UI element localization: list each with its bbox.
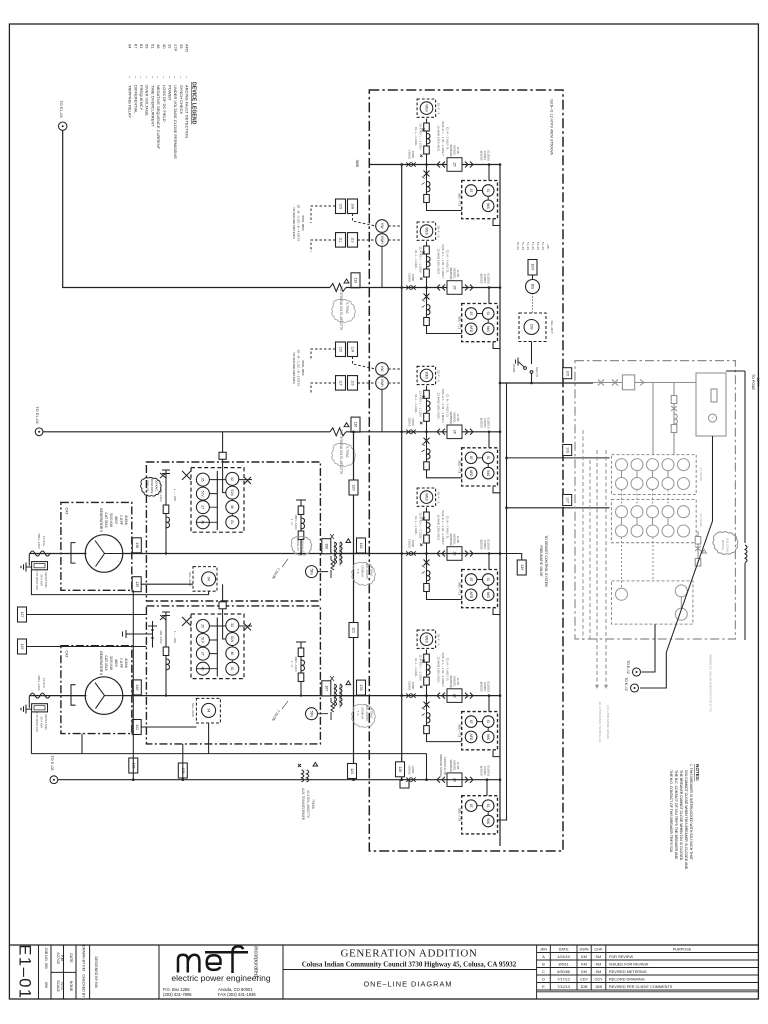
- sync relay 25: [447, 281, 462, 295]
- relay 81: [226, 662, 239, 675]
- generator G5 enclosure: [61, 502, 132, 590]
- fused chain to mobile sub: [695, 531, 706, 566]
- GSU transformer T-5: [321, 534, 369, 566]
- existing main bus: [593, 382, 696, 384]
- svg-text:12.47KV–480/277V: 12.47KV–480/277V: [306, 790, 310, 819]
- future feeder leads: [597, 450, 606, 685]
- breaker 52-G6 head: [417, 630, 440, 696]
- svg-text:121: 121: [352, 627, 356, 633]
- logo box: [158, 945, 160, 999]
- svg-text:MOBILE: MOBILE: [721, 540, 725, 551]
- CT chain G6: [422, 696, 462, 742]
- switchgear boundary box: [369, 90, 563, 851]
- breaker box 128b: [396, 762, 405, 777]
- relay panel 1: [191, 468, 244, 533]
- junction dots bay 2: [165, 694, 167, 696]
- svg-text:1→P: 1→P: [290, 661, 294, 668]
- existing switchgear boundary: [575, 361, 735, 639]
- node TO E1-03: [59, 100, 67, 130]
- sync relay 25: [447, 547, 462, 561]
- svg-text:51–2S: 51–2S: [526, 242, 530, 250]
- relay panel grid A: [612, 455, 704, 495]
- breaker box 127: [18, 607, 27, 622]
- svg-text:SCALE: SCALE: [56, 980, 60, 992]
- svg-text:electric power engineering: electric power engineering: [171, 973, 270, 983]
- relay panel 2: [191, 614, 244, 679]
- neutral coil G5: [30, 551, 50, 556]
- svg-text:4160A: 4160A: [124, 515, 128, 526]
- CT tap meters module 2: [376, 220, 389, 233]
- svg-text:DWN: DWN: [579, 948, 588, 952]
- svg-text:1. THIS BREAKER IS INTERLOCKE: 1. THIS BREAKER IS INTERLOCKED WITH 52U …: [689, 764, 693, 861]
- breaker box 128: [18, 639, 27, 654]
- svg-text:15 KVA: 15 KVA: [42, 678, 46, 688]
- title block columns: [50, 945, 52, 999]
- CT chain G5: [422, 554, 462, 600]
- svg-text:MALTO: MALTO: [535, 367, 539, 377]
- svg-text:AUX TRANSFORMER: AUX TRANSFORMER: [301, 788, 305, 821]
- svg-text:51–2S: 51–2S: [521, 242, 525, 250]
- svg-text:128: 128: [398, 766, 402, 772]
- interlock riser to E-02: [640, 436, 713, 688]
- station power PT chain 1: [159, 470, 177, 554]
- relay 51V: [196, 634, 209, 647]
- svg-text:CDY: CDY: [580, 978, 588, 982]
- swg label cloud: [141, 477, 162, 496]
- svg-text:TO SECURE METER’G: TO SECURE METER’G: [292, 352, 296, 384]
- svg-text:116: 116: [351, 380, 355, 386]
- svg-text:105: 105: [565, 370, 569, 376]
- relay 40: [196, 516, 209, 529]
- svg-text:NOTES:: NOTES:: [695, 764, 700, 782]
- svg-text:KM: KM: [581, 963, 587, 967]
- svg-text:S2000A E=05: S2000A E=05: [443, 757, 447, 776]
- svg-text:DRAWN BY KM: DRAWN BY KM: [82, 945, 86, 971]
- wire E1-03 riser: [63, 130, 330, 287]
- relay group U2: [458, 304, 498, 342]
- svg-text:A: A: [710, 417, 714, 419]
- relay 51V: [196, 487, 209, 500]
- svg-text:116: 116: [354, 422, 358, 428]
- svg-text:CDY: CDY: [594, 978, 602, 982]
- meter breaker box 114: [348, 342, 358, 357]
- breaker 52-G5 head: [417, 488, 440, 554]
- svg-text:RESISTOR: RESISTOR: [44, 714, 48, 730]
- svg-text:5.75%Z: 5.75%Z: [370, 708, 374, 718]
- svg-text:THE BREAKER CANNOT CLOSE WHEN: THE BREAKER CANNOT CLOSE WHEN 52U IS CLO…: [679, 770, 683, 861]
- aux power tap breaker 119: [500, 554, 522, 562]
- svg-text:5.75%Z: 5.75%Z: [345, 447, 349, 458]
- breaker box 141: [132, 720, 141, 735]
- svg-text:108: 108: [351, 203, 355, 209]
- svg-text:SUB CONN: SUB CONN: [726, 538, 730, 553]
- svg-text:THE N.O. CONTACT OF THIS BREAK: THE N.O. CONTACT OF THIS BREAKER TRIPS 5…: [669, 770, 673, 853]
- svg-text:25: 25: [201, 478, 205, 482]
- svg-text:DIS: DIS: [529, 324, 533, 330]
- svg-text:480V–120V: 480V–120V: [37, 533, 41, 549]
- relay group U3: [458, 448, 498, 486]
- wire relay to trunk: [493, 220, 500, 226]
- neutral relay 59N: [306, 566, 318, 578]
- svg-text:(303) 431-7895: (303) 431-7895: [163, 992, 192, 997]
- svg-text:132: 132: [359, 543, 363, 549]
- breaker box 124: [348, 764, 357, 779]
- wire relay drop: [488, 696, 490, 712]
- svg-text:46: 46: [230, 652, 234, 656]
- svg-text:Colusa Indian Community Counci: Colusa Indian Community Council 3730 Hig…: [302, 961, 517, 969]
- svg-text:59N: 59N: [309, 711, 313, 718]
- collector bus vertical: [499, 165, 501, 847]
- svg-text:JDB: JDB: [580, 985, 588, 989]
- svg-text:75KVA: 75KVA: [311, 799, 315, 810]
- fused PT chain: [671, 383, 677, 455]
- breaker box 166: [322, 539, 331, 554]
- svg-text:94: 94: [206, 709, 210, 713]
- wire bus 2: [369, 287, 500, 289]
- wire feeder G5: [29, 553, 500, 555]
- device list text: [516, 242, 550, 250]
- svg-text:(2) 4–500 KCMIL SPARE: (2) 4–500 KCMIL SPARE: [606, 705, 610, 739]
- svg-text:KM: KM: [581, 970, 587, 974]
- svg-text:NONE: NONE: [69, 981, 73, 992]
- paralleling tap: [123, 621, 158, 648]
- switchgear 2 boundary: [146, 606, 320, 744]
- svg-text:107: 107: [565, 497, 569, 503]
- relay 32: [226, 472, 239, 485]
- svg-text:E1–01: E1–01: [16, 944, 34, 999]
- svg-text:51N: 51N: [230, 636, 234, 643]
- svg-text:129: 129: [20, 644, 24, 650]
- breaker box 138: [132, 538, 141, 553]
- GSU transformer T-6: [321, 676, 369, 708]
- neutral coil G6: [30, 693, 50, 698]
- svg-text:25: 25: [201, 624, 205, 628]
- aux transformer on E-02 feeder: [298, 762, 318, 820]
- svg-text:D: D: [542, 978, 545, 982]
- svg-text:CAT 3516: CAT 3516: [104, 656, 108, 671]
- ground G6: [21, 705, 32, 714]
- svg-text:46: 46: [230, 505, 234, 509]
- bus label cloud: [291, 536, 312, 555]
- svg-text:7/17/12: 7/17/12: [557, 978, 570, 982]
- junction dots bay 1: [165, 552, 167, 554]
- svg-text:138: 138: [135, 542, 139, 548]
- neutral ground resistor G6: [28, 696, 30, 708]
- wire 94 trip: [31, 712, 426, 754]
- breaker box 105: [563, 368, 572, 379]
- svg-text:480–12470V: 480–12470V: [365, 705, 369, 721]
- svg-text:0803, 0804: 0803, 0804: [301, 360, 305, 375]
- svg-text:KW: KW: [380, 223, 384, 228]
- svg-text:3750KVA: 3750KVA: [361, 565, 365, 577]
- relay 25: [196, 620, 209, 633]
- meter breaker box 110: [348, 233, 358, 248]
- node TO E1-04: [35, 406, 43, 435]
- svg-text:–PB: –PB: [546, 243, 550, 249]
- CT riser tie: [426, 754, 428, 780]
- svg-text:KM: KM: [596, 970, 602, 974]
- svg-text:480V–120V: 480V–120V: [37, 675, 41, 691]
- svg-text:43–SGR8: 43–SGR8: [699, 467, 703, 481]
- svg-text:T–5: T–5: [356, 569, 360, 574]
- sync relay 25: [447, 158, 462, 172]
- wire bus 3: [369, 431, 500, 433]
- svg-text:DESIGNED BY KM: DESIGNED BY KM: [94, 957, 98, 988]
- mobile sub cloud: [713, 532, 738, 555]
- svg-text:WM800E MODEL: WM800E MODEL: [439, 754, 443, 778]
- svg-text:SWG–05: SWG–05: [146, 480, 150, 492]
- title block top rule: [9, 944, 758, 946]
- PT fuse chain 2: [290, 642, 306, 696]
- fuse on E1-03 tie: [330, 279, 349, 292]
- wire relay to trunk: [493, 751, 500, 757]
- svg-text:1→↓ 200: 1→↓ 200: [173, 631, 177, 643]
- svg-text:52→B→3, 52→B→4 CKTS: 52→B→3, 52→B→4 CKTS: [297, 205, 301, 242]
- meter circle: [526, 280, 540, 294]
- relay group U1: [458, 181, 498, 219]
- breaker box 120: [349, 480, 358, 495]
- relay panel grid B: [612, 500, 704, 543]
- svg-text:480–120V: 480–120V: [159, 630, 163, 644]
- svg-text:CHK: CHK: [594, 948, 602, 952]
- bus trunk GEN-G vertical: [401, 165, 403, 780]
- svg-text:119: 119: [520, 565, 524, 571]
- wire relay drop: [488, 554, 490, 570]
- svg-text:51–2S: 51–2S: [531, 242, 535, 250]
- generator G5 nameplate: [99, 508, 128, 532]
- svg-text:WIRING BY SOLAR CONTRACTOR (TY: WIRING BY SOLAR CONTRACTOR (TYP): [709, 654, 713, 712]
- svg-text:32: 32: [230, 477, 234, 481]
- svg-text:KM: KM: [596, 963, 602, 967]
- breaker box 167: [322, 681, 331, 696]
- svg-text:43–SGR9: 43–SGR9: [699, 513, 703, 527]
- svg-text:166: 166: [324, 543, 328, 549]
- relay 46: [226, 647, 239, 660]
- svg-text:T–2 3750KVA 12470–480/277V: T–2 3750KVA 12470–480/277V: [339, 430, 343, 475]
- sync relay 25: [447, 689, 462, 703]
- svg-text:T–6: T–6: [356, 711, 360, 716]
- wire future dotted: [532, 294, 534, 314]
- svg-text:090: 090: [44, 982, 48, 988]
- svg-text:KWH: KWH: [380, 379, 384, 387]
- wire meter bus: [500, 382, 593, 384]
- breaker X mark: [182, 471, 191, 480]
- wire 94 to gen: [141, 726, 197, 728]
- svg-text:SWG–06: SWG–06: [296, 539, 300, 551]
- svg-text:CHECKED BY: CHECKED BY: [82, 974, 86, 998]
- svg-text:SEL–2100: SEL–2100: [191, 703, 195, 717]
- svg-text:T–1 3750KVA 12470–480/277V: T–1 3750KVA 12470–480/277V: [339, 286, 343, 331]
- meter breaker box 111: [336, 233, 346, 248]
- svg-text:KM: KM: [60, 955, 64, 960]
- breaker box 132: [357, 538, 366, 553]
- svg-text:140: 140: [135, 684, 139, 690]
- svg-text:TO PG&E: TO PG&E: [751, 374, 755, 391]
- wire relay drop: [488, 165, 490, 181]
- ground G5: [21, 563, 32, 572]
- breaker box 126: [129, 758, 138, 773]
- breaker 52-F2 head: [417, 222, 440, 288]
- svg-text:DATE: DATE: [559, 948, 569, 952]
- svg-text:111: 111: [339, 237, 343, 242]
- svg-text:4/27/10: 4/27/10: [56, 952, 60, 964]
- generator G6 nameplate: [99, 651, 128, 675]
- svg-text:ISSUED FOR REVIEW: ISSUED FOR REVIEW: [609, 963, 649, 967]
- svg-text:133: 133: [359, 685, 363, 691]
- svg-text:DATE: DATE: [69, 953, 73, 963]
- CT tap meters module 3: [376, 363, 389, 376]
- svg-text:RESISTOR: RESISTOR: [44, 572, 48, 588]
- svg-text:100KAIC: 100KAIC: [155, 480, 159, 491]
- svg-text:3000A 480V: 3000A 480V: [150, 478, 154, 493]
- relay group U5: [458, 712, 498, 750]
- svg-text:1.75 OHM 10S: 1.75 OHM 10S: [35, 570, 39, 590]
- sync relay 25: [447, 773, 462, 787]
- svg-text:GEN–G 12.47KV 480V 3750KVA: GEN–G 12.47KV 480V 3750KVA: [550, 99, 554, 155]
- wire trunk end: [498, 815, 507, 820]
- svg-text:KM: KM: [581, 955, 587, 959]
- svg-text:113: 113: [354, 278, 358, 284]
- meter breaker box 116b: [348, 376, 358, 391]
- T-6 nameplate cloud: [352, 704, 376, 727]
- switch poles: [598, 380, 618, 386]
- svg-text:59N: 59N: [309, 569, 313, 576]
- svg-text:DEVICE LEGEND: DEVICE LEGEND: [191, 82, 197, 125]
- PT fuse chain: [290, 500, 306, 554]
- alternate feed taps: [507, 457, 610, 459]
- sheet number box E1-01: [38, 945, 40, 999]
- svg-text:81: 81: [230, 520, 234, 524]
- svg-text:27: 27: [201, 505, 205, 509]
- wire relay to trunk: [493, 609, 500, 615]
- svg-text:REVISED METERING: REVISED METERING: [609, 970, 647, 974]
- svg-text:3000 KW: 3000 KW: [109, 513, 113, 528]
- svg-text:TO E–02: TO E–02: [626, 660, 630, 674]
- transfer switch MALTO: [512, 358, 539, 384]
- svg-text:15 KVA: 15 KVA: [42, 536, 46, 546]
- trip relay 94 box: [193, 567, 217, 592]
- svg-text:CAT 3516: CAT 3516: [104, 513, 108, 528]
- disconnect cabinet: [519, 313, 546, 342]
- svg-text:32: 32: [230, 623, 234, 627]
- svg-text:TO E1–04: TO E1–04: [35, 406, 39, 423]
- wire 94 to gen: [141, 583, 194, 585]
- CT chain F2: [422, 288, 462, 334]
- svg-text:8/5/11: 8/5/11: [558, 963, 568, 967]
- relay 51N: [226, 633, 239, 646]
- revision table: [537, 945, 759, 999]
- svg-text:167: 167: [324, 685, 328, 691]
- transformer label T-2: [332, 443, 356, 466]
- svg-text:CAT: CAT: [65, 508, 69, 516]
- svg-text:GENERATOR 5: GENERATOR 5: [99, 508, 103, 532]
- breaker box 113: [351, 273, 360, 288]
- breaker box 116: [351, 417, 360, 432]
- svg-text:7/12/13: 7/12/13: [557, 985, 570, 989]
- svg-text:KWH: KWH: [380, 236, 384, 244]
- wire feeder G6: [29, 695, 500, 697]
- svg-text:94: 94: [206, 577, 210, 581]
- svg-text:5.75%Z: 5.75%Z: [345, 303, 349, 314]
- node TO E-02 (lower left): [50, 755, 58, 783]
- svg-text:KW: KW: [380, 366, 384, 371]
- wire E1-04 tie: [43, 431, 330, 433]
- aux device E box: [219, 602, 226, 609]
- svg-text:TO GENSET CONTROL SYSTEM: TO GENSET CONTROL SYSTEM: [544, 535, 548, 587]
- svg-text:TO SECURE METER’G: TO SECURE METER’G: [292, 207, 296, 239]
- switchgear 1 boundary: [146, 462, 320, 601]
- wire relay drop: [488, 432, 490, 448]
- wire 94 trip: [31, 570, 208, 595]
- test switch box: [528, 260, 537, 276]
- relay 25: [196, 473, 209, 486]
- relay group U6: [458, 796, 498, 834]
- relay group U4: [458, 570, 498, 608]
- relay trunk vertical: [506, 383, 508, 820]
- breaker X mark: [182, 617, 191, 626]
- meter breaker box 108: [348, 199, 358, 214]
- svg-text:TO E–02: TO E–02: [624, 677, 628, 691]
- svg-text:1→P: 1→P: [290, 519, 294, 526]
- breaker 52-F1 head: [417, 99, 440, 165]
- svg-text:NTS: NTS: [60, 982, 64, 990]
- svg-text:JKN: JKN: [540, 948, 547, 952]
- aux wire row 1: [27, 614, 147, 616]
- gen1 down feed: [132, 590, 134, 779]
- revenue meter cabinet: [696, 373, 726, 436]
- relay 51N: [226, 486, 239, 499]
- panel bus 1: [216, 471, 218, 530]
- svg-text:4160A: 4160A: [124, 658, 128, 669]
- fuse on E1-04 tie: [330, 423, 349, 436]
- svg-text:PNEUMATIC VALVE: PNEUMATIC VALVE: [539, 545, 543, 577]
- svg-text:139: 139: [135, 581, 139, 587]
- svg-text:115: 115: [339, 346, 343, 352]
- wire relay to trunk: [493, 487, 500, 493]
- svg-text:FOR REVIEW: FOR REVIEW: [609, 955, 633, 959]
- breaker C1 box: [622, 375, 634, 390]
- svg-text:FAX (303) 431-1836: FAX (303) 431-1836: [218, 992, 256, 997]
- svg-text:480–120V: 480–120V: [159, 488, 163, 502]
- svg-text:51–2S: 51–2S: [541, 242, 545, 250]
- svg-text:51V: 51V: [201, 637, 205, 644]
- svg-text:52→B→1, 52→B→2 CKTS: 52→B→1, 52→B→2 CKTS: [297, 350, 301, 387]
- svg-text:PURPOSE: PURPOSE: [673, 948, 692, 952]
- wire into box: [346, 287, 369, 289]
- svg-text:480V: 480V: [114, 516, 118, 525]
- svg-text:1/24/10: 1/24/10: [557, 955, 570, 959]
- wire bus 1: [369, 164, 500, 166]
- svg-text:5.75%Z: 5.75%Z: [370, 566, 374, 576]
- relay 27: [196, 501, 209, 514]
- svg-text:124: 124: [350, 768, 354, 774]
- svg-text:A: A: [542, 955, 545, 959]
- neutral ground resistor G5: [28, 554, 30, 566]
- node TO E-02 (right pair): [624, 660, 641, 692]
- svg-text:114: 114: [351, 346, 355, 352]
- svg-text:51V: 51V: [201, 491, 205, 498]
- svg-text:C: C: [542, 970, 545, 974]
- wire to transfer switch: [531, 342, 533, 365]
- trip relay 94 box: [196, 698, 220, 723]
- svg-text:110: 110: [351, 237, 355, 243]
- svg-text:NORM: NORM: [512, 364, 516, 373]
- svg-text:DIS: DIS: [530, 284, 534, 290]
- T-5 nameplate cloud: [352, 562, 376, 585]
- relay 27: [196, 647, 209, 660]
- svg-text:6/30/66: 6/30/66: [557, 970, 570, 974]
- mef logo: [163, 946, 271, 997]
